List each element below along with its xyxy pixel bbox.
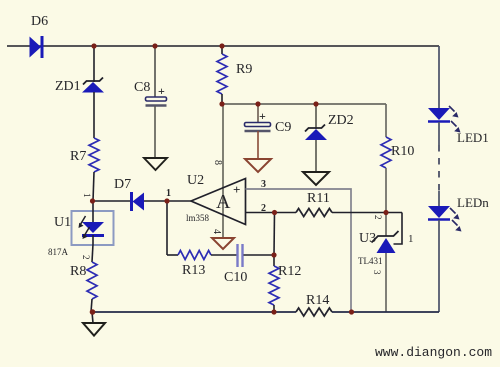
svg-text:817A: 817A [48,247,69,257]
LED LEDn [428,195,489,232]
svg-text:R14: R14 [306,293,329,308]
optocoupler U1 [48,193,114,260]
svg-text:D6: D6 [31,14,48,29]
svg-text:TL431: TL431 [358,256,383,266]
node mid rail C9 [255,101,260,106]
svg-text:U3: U3 [359,231,376,246]
wire bottom rail left [91,311,296,313]
wire C9 to ground [257,131,259,159]
node bottom rail pin 3 [349,309,354,314]
svg-text:R7: R7 [70,149,86,164]
wire R7 to node [93,172,94,201]
svg-text:2: 2 [373,215,383,220]
node top rail ZD1 [91,43,96,48]
resistor R9 [217,46,252,104]
svg-text:R9: R9 [236,62,252,77]
ground op-amp pin 4 [212,238,234,249]
ground below R8 node [83,312,105,336]
wire mid rail corner down to R10 [385,104,387,137]
svg-text:1: 1 [166,188,171,199]
wire U3 pin 1 loop [394,213,414,246]
wire ZD2 to ground [315,140,317,172]
wire op-amp pin 2 [246,203,297,214]
watermark www.diangon.com [375,345,492,360]
svg-text:U2: U2 [187,173,204,188]
wire LEDn to bottom rail [438,220,440,312]
svg-text:3: 3 [372,270,382,275]
node U1 top [90,198,95,203]
wire bottom rail right [332,311,439,313]
node bottom rail R8 [90,309,96,315]
wire LED string top [438,46,440,108]
node op-amp pin 1 [164,198,169,203]
wire C8 branch [154,46,156,97]
wire op-amp power line pin 8 to pin 4 [211,104,223,238]
wire feedback drop from pin 1 node [166,201,168,255]
node U3 cathode [383,210,388,215]
resistor R13 [178,251,211,279]
svg-text:ZD1: ZD1 [55,79,81,94]
svg-text:A: A [216,191,231,213]
wire R10 to U3 node [385,168,387,236]
svg-text:1: 1 [408,233,414,245]
svg-text:R13: R13 [182,263,205,278]
zener ZD2 [305,113,354,140]
wire pin 2 node drop [273,212,276,255]
wire R8 to bottom rail [91,299,92,312]
wire ZD1 to R7 [93,92,95,138]
wire D7 to op-amp output pin 1 [144,188,191,201]
diode D7 [114,177,144,211]
shunt regulator U3 TL431 [358,215,399,275]
svg-text:D7: D7 [114,177,131,192]
svg-text:C8: C8 [134,80,150,95]
op-amp U2 [186,173,246,225]
svg-text:www.diangon.com: www.diangon.com [375,345,492,360]
wire LED1 to dashed section [438,122,440,145]
ground below C9 [245,159,271,172]
resistor R14 [296,293,332,316]
wire mid rail [222,103,386,105]
svg-text:U1: U1 [54,215,71,230]
node mid rail R9 [219,101,224,106]
resistor R7 [70,138,99,172]
node R12 top [271,252,276,257]
wire ZD2 branch [315,104,317,129]
svg-text:+: + [259,109,266,123]
ground below ZD2 [303,172,329,185]
svg-text:ZD2: ZD2 [328,113,354,128]
diode D6 [30,14,49,58]
capacitor C8 [134,80,167,106]
svg-text:LEDn: LEDn [457,195,489,210]
node bottom rail R12 [271,309,276,314]
wire U1 to R8 [92,244,93,262]
svg-text:+: + [158,84,165,98]
svg-text:4: 4 [211,229,222,234]
wire C8 to ground [154,106,156,158]
wire top rail [7,45,439,47]
capacitor C9 [245,109,292,135]
svg-text:1: 1 [82,193,92,198]
svg-text:3: 3 [261,179,266,190]
wire node to D7 [92,200,131,202]
resistor R12 [269,255,301,312]
wire op-amp pin 3 [246,179,352,312]
svg-text:R10: R10 [391,144,414,159]
zener ZD1 [55,78,104,95]
wire ZD1 branch top [93,46,95,82]
svg-text:R8: R8 [70,264,86,279]
svg-text:8: 8 [212,160,223,165]
svg-text:2: 2 [81,255,91,260]
node top rail R9 [219,43,224,48]
svg-text:+: + [233,182,240,197]
wire C9 branch [257,104,259,122]
svg-text:lm358: lm358 [186,213,210,223]
svg-text:R12: R12 [278,264,301,279]
svg-text:2: 2 [261,203,266,214]
wire R13 to C10 [211,254,237,256]
ground below C8 [144,158,167,170]
wire feedback to R13 [167,254,178,256]
svg-text:C9: C9 [275,120,291,135]
node pin 2 wire [272,210,277,215]
svg-text:C10: C10 [224,270,247,285]
capacitor C10 [224,244,247,285]
resistor R11 [296,191,332,217]
wire R11 to U3 node [332,212,402,214]
wire U3 to bottom rail [385,253,387,312]
resistor R8 [70,262,97,299]
svg-text:LED1: LED1 [457,130,489,145]
wire dashed to LEDn [438,191,440,206]
wire dashed LED string continuation [438,145,440,191]
node top rail C8 [152,43,157,48]
LED LED1 [428,106,489,145]
resistor R10 [381,137,414,168]
wire C10 to R12 node [244,254,275,256]
node mid rail ZD2 [313,101,318,106]
svg-text:R11: R11 [307,191,330,206]
